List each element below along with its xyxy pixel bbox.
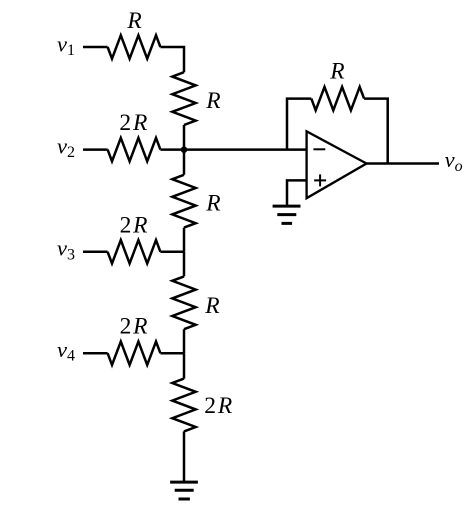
svg-text:R: R: [205, 191, 220, 217]
resistor 2R (v3 input): [108, 240, 161, 263]
resistor R (feedback): [311, 87, 364, 110]
wire ladder into node v2: [183, 125, 186, 150]
op-amp U1 triangle: [307, 131, 367, 198]
svg-text:2R: 2R: [204, 393, 234, 419]
svg-text:R: R: [205, 88, 220, 114]
resistor R (v1 input): [108, 35, 161, 58]
junction dot node v2: [181, 146, 188, 153]
resistor R (ladder, v2 node to v3 node): [172, 150, 195, 252]
svg-text:2R: 2R: [120, 314, 150, 340]
resistor 2R (v4 input): [108, 342, 161, 365]
svg-text:v2: v2: [57, 133, 75, 161]
svg-text:2R: 2R: [119, 110, 149, 136]
svg-text:R: R: [329, 59, 344, 85]
wire op-amp non-inverting input to ground: [287, 180, 307, 205]
svg-text:R: R: [204, 293, 219, 319]
ground symbol (ladder bottom): [170, 482, 198, 499]
wire v1 resistor to ladder corner: [160, 47, 184, 72]
resistor 2R (ladder terminator, v4 node to ground): [172, 353, 195, 481]
resistor 2R (v2 input): [108, 138, 161, 161]
wire feedback right riser to output: [364, 99, 388, 164]
svg-text:v1: v1: [57, 31, 75, 59]
wire v3 input stub: [83, 251, 108, 254]
wire v3 resistor to ladder: [160, 251, 184, 254]
svg-text:2R: 2R: [120, 212, 150, 238]
op-amp non-inverting input plus sign: [314, 174, 326, 186]
wire feedback left riser: [287, 99, 311, 150]
svg-text:vo: vo: [445, 147, 463, 175]
ground symbol (op-amp reference): [273, 206, 301, 223]
wire v2 input stub: [83, 148, 108, 151]
wire node v2 to op-amp inverting input: [160, 148, 306, 151]
op-amp inverting input minus sign: [313, 148, 325, 150]
resistor R (ladder, v1 node to v2 node): [172, 72, 195, 125]
resistor R (ladder, v3 node to v4 node): [172, 252, 195, 353]
wire op-amp output: [367, 162, 440, 165]
wire v1 input stub: [83, 46, 108, 49]
svg-text:R: R: [126, 8, 141, 34]
svg-text:v3: v3: [57, 236, 75, 264]
wire v4 resistor to ladder: [160, 352, 184, 355]
wire v4 input stub: [83, 352, 108, 355]
svg-text:v4: v4: [57, 337, 75, 365]
